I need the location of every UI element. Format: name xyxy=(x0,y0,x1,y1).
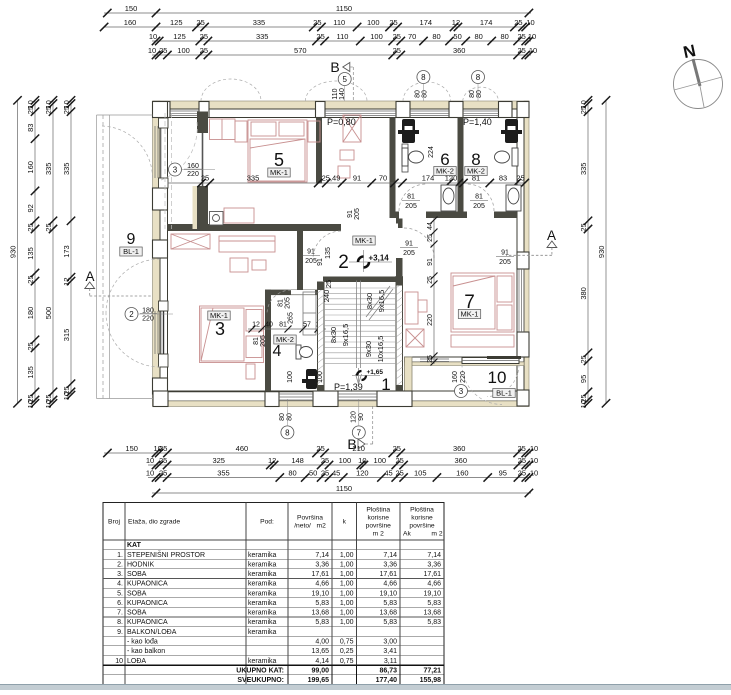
room 8 label xyxy=(465,150,487,176)
svg-text:12: 12 xyxy=(268,456,276,465)
svg-text:224: 224 xyxy=(428,146,435,158)
svg-text:91: 91 xyxy=(347,210,354,218)
room 1 label xyxy=(381,375,390,394)
door label room 7 xyxy=(400,241,418,258)
svg-text:3,00: 3,00 xyxy=(383,639,397,646)
svg-text:25: 25 xyxy=(427,355,434,363)
svg-text:17,61: 17,61 xyxy=(311,571,329,578)
window marker circle 8 bottom xyxy=(281,426,294,439)
svg-text:360: 360 xyxy=(453,46,466,55)
svg-text:KUPAONICA: KUPAONICA xyxy=(127,581,168,588)
svg-text:BALKON/LOĐA: BALKON/LOĐA xyxy=(127,629,177,636)
svg-text:10: 10 xyxy=(26,400,35,408)
dim chain left total 930 xyxy=(8,96,21,407)
svg-text:110: 110 xyxy=(332,88,339,99)
svg-text:125: 125 xyxy=(170,18,183,27)
svg-text:12: 12 xyxy=(252,322,260,329)
svg-text:10: 10 xyxy=(530,468,538,477)
dim chain left row 3 xyxy=(44,96,57,408)
svg-text:13,65: 13,65 xyxy=(311,648,329,655)
door label bath 4 xyxy=(278,297,292,309)
svg-text:1.: 1. xyxy=(117,552,123,559)
svg-text:B: B xyxy=(330,59,339,75)
pier top wall x498.5 xyxy=(499,102,513,118)
P labels xyxy=(327,117,492,392)
svg-text:+1,65: +1,65 xyxy=(367,369,384,376)
room 10 label xyxy=(488,368,516,398)
svg-text:83: 83 xyxy=(499,174,507,183)
door opening room 7 from corridor xyxy=(396,228,404,258)
svg-text:135: 135 xyxy=(325,247,332,259)
svg-text:91: 91 xyxy=(307,249,315,256)
wall room 7 west upper xyxy=(396,218,403,277)
svg-text:205: 205 xyxy=(499,259,511,266)
svg-text:9x30: 9x30 xyxy=(364,341,373,357)
svg-text:110: 110 xyxy=(333,18,345,27)
glazing lines right wall sliding door xyxy=(519,269,524,332)
svg-text:/neto/ m2: /neto/ m2 xyxy=(294,523,326,530)
pier bottom wall x265 xyxy=(265,391,279,407)
svg-text:25: 25 xyxy=(517,46,525,55)
glazing loggia divider window xyxy=(420,358,519,364)
svg-text:korisne: korisne xyxy=(367,515,389,522)
svg-text:25: 25 xyxy=(395,468,403,477)
stairs break line xyxy=(366,286,393,320)
svg-text:17,61: 17,61 xyxy=(423,571,441,578)
wall exterior right: inner band xyxy=(517,109,524,398)
dim chain top row 2 xyxy=(100,18,535,31)
dim chain right inner xyxy=(579,96,592,408)
svg-text:81: 81 xyxy=(278,299,285,307)
pier top wall x396 xyxy=(396,102,410,118)
svg-text:25: 25 xyxy=(579,355,588,363)
svg-text:3: 3 xyxy=(459,387,464,396)
wall loggia 10 west xyxy=(405,357,413,402)
room 5 kitchen counter xyxy=(224,208,254,223)
bathroom 6 toilet xyxy=(402,148,424,166)
svg-text:100: 100 xyxy=(317,371,324,383)
section marker A right xyxy=(506,228,557,255)
svg-text:174: 174 xyxy=(480,18,493,27)
window marker circle 8 top b xyxy=(472,71,485,84)
wall interior between room 3 and bathroom 4 xyxy=(265,290,271,392)
svg-text:10: 10 xyxy=(488,368,507,387)
door opening bathroom 6 xyxy=(399,211,426,219)
svg-text:10: 10 xyxy=(358,456,366,465)
svg-text:91: 91 xyxy=(501,250,509,257)
svg-text:174: 174 xyxy=(420,18,433,27)
bathroom 6 shelf xyxy=(402,144,408,172)
svg-text:Etaža, dio zgrade: Etaža, dio zgrade xyxy=(128,519,180,526)
pier bottom wall x377 xyxy=(377,391,412,407)
svg-text:1,00: 1,00 xyxy=(340,571,354,578)
svg-text:površine: površine xyxy=(409,523,435,530)
balcony 9 door swing arcs xyxy=(101,126,161,367)
room 9 label xyxy=(120,231,142,256)
svg-text:25: 25 xyxy=(517,32,525,41)
marker 7 bottom texts xyxy=(351,399,366,426)
interior dim line across plan y=183 xyxy=(168,174,530,188)
svg-text:44: 44 xyxy=(427,222,434,230)
svg-text:355: 355 xyxy=(217,468,230,477)
svg-text:SOBA: SOBA xyxy=(127,590,147,597)
wall interior south of room 5 xyxy=(168,224,342,231)
svg-text:3,36: 3,36 xyxy=(383,562,397,569)
svg-text:površine: površine xyxy=(366,523,392,530)
svg-text:P=1,40: P=1,40 xyxy=(463,117,492,127)
bottom gray strip xyxy=(0,685,731,691)
svg-text:8x30: 8x30 xyxy=(329,327,338,343)
svg-text:10: 10 xyxy=(530,444,538,453)
svg-text:9: 9 xyxy=(127,231,136,248)
svg-text:keramika: keramika xyxy=(248,629,277,636)
svg-text:keramika: keramika xyxy=(248,562,277,569)
svg-text:25: 25 xyxy=(200,32,208,41)
svg-text:SOBA: SOBA xyxy=(127,571,147,578)
svg-text:10: 10 xyxy=(146,468,154,477)
svg-text:25: 25 xyxy=(579,106,588,114)
tan edge of wall stub xyxy=(193,186,198,229)
svg-text:40: 40 xyxy=(265,322,273,329)
table totals xyxy=(236,667,441,684)
svg-text:10: 10 xyxy=(115,658,123,665)
svg-text:Ploština: Ploština xyxy=(366,507,390,514)
room 7 label xyxy=(458,292,480,319)
stairs center stringer xyxy=(356,281,362,385)
svg-text:570: 570 xyxy=(294,46,307,55)
svg-text:P=1,39: P=1,39 xyxy=(334,382,363,392)
door swing arcs interior xyxy=(267,184,494,314)
loggia divider sill dark xyxy=(487,356,521,359)
window marker circle 3 left xyxy=(169,163,182,176)
svg-text:6.: 6. xyxy=(117,600,123,607)
svg-text:10: 10 xyxy=(62,392,71,400)
svg-text:MK-2: MK-2 xyxy=(467,167,485,176)
level marker +3,14 in corridor xyxy=(349,250,392,272)
svg-text:80: 80 xyxy=(415,90,422,98)
svg-text:10: 10 xyxy=(529,46,537,55)
door label room 3 xyxy=(253,335,267,347)
svg-text:25: 25 xyxy=(159,456,167,465)
dim chain left row 2 xyxy=(26,96,39,408)
bathroom 4 dims xyxy=(248,322,326,333)
svg-text:148: 148 xyxy=(291,456,304,465)
svg-text:335: 335 xyxy=(579,163,588,176)
svg-text:12: 12 xyxy=(62,277,71,285)
svg-text:70: 70 xyxy=(408,32,416,41)
svg-text:25: 25 xyxy=(26,106,35,114)
svg-text:8x30: 8x30 xyxy=(365,293,374,309)
pier top wall x199 xyxy=(199,102,209,118)
svg-text:10: 10 xyxy=(44,400,53,408)
svg-text:155,98: 155,98 xyxy=(420,677,442,684)
wall exterior bottom: inner band xyxy=(153,391,529,401)
bottom wall inner edge emphasis xyxy=(168,391,314,393)
svg-text:KAT: KAT xyxy=(127,542,142,549)
svg-text:335: 335 xyxy=(44,163,53,176)
svg-text:0,75: 0,75 xyxy=(340,658,354,665)
svg-text:150: 150 xyxy=(125,4,138,13)
svg-text:Broj: Broj xyxy=(108,519,120,526)
glazing lines bottom wall window xyxy=(279,394,377,400)
svg-text:177,40: 177,40 xyxy=(376,677,398,684)
svg-text:A: A xyxy=(547,228,556,243)
svg-text:Površina: Površina xyxy=(297,515,323,522)
svg-text:80: 80 xyxy=(500,32,508,41)
svg-text:135: 135 xyxy=(26,247,35,260)
room 3 sofa xyxy=(219,236,275,272)
stairs labels xyxy=(322,280,386,363)
svg-text:25: 25 xyxy=(393,444,401,453)
svg-text:335: 335 xyxy=(62,163,71,176)
svg-text:80: 80 xyxy=(469,90,476,98)
svg-text:0,75: 0,75 xyxy=(340,639,354,646)
svg-text:KUPAONICA: KUPAONICA xyxy=(127,619,168,626)
svg-text:25: 25 xyxy=(200,46,208,55)
pier top wall x159 xyxy=(159,102,170,118)
svg-text:1,00: 1,00 xyxy=(340,552,354,559)
wall exterior top: inner band xyxy=(153,109,529,118)
svg-text:3,36: 3,36 xyxy=(315,562,329,569)
window marker circle 5 top xyxy=(338,73,351,86)
svg-text:1: 1 xyxy=(381,375,390,394)
svg-text:95: 95 xyxy=(499,468,507,477)
wall exterior right: tan band xyxy=(524,101,529,406)
svg-text:1,00: 1,00 xyxy=(340,600,354,607)
room 3 wardrobe with X xyxy=(171,234,210,249)
wall stub in room 5 xyxy=(197,186,208,229)
svg-text:25: 25 xyxy=(321,468,329,477)
svg-text:SVEUKUPNO:: SVEUKUPNO: xyxy=(237,677,284,684)
bathroom 4 toilet xyxy=(296,345,313,359)
svg-text:25: 25 xyxy=(393,32,401,41)
svg-text:77,21: 77,21 xyxy=(423,667,441,674)
svg-text:10: 10 xyxy=(146,456,154,465)
svg-text:5,83: 5,83 xyxy=(315,600,329,607)
svg-text:STEPENIŠNI PROSTOR: STEPENIŠNI PROSTOR xyxy=(127,550,205,559)
room 4 label xyxy=(273,335,297,360)
room 7 X-box xyxy=(406,329,424,347)
svg-text:19,10: 19,10 xyxy=(423,590,441,597)
svg-text:KUPAONICA: KUPAONICA xyxy=(127,600,168,607)
stairwell east wall (concrete, hatched) xyxy=(396,276,403,391)
svg-text:MK-1: MK-1 xyxy=(461,310,479,319)
svg-text:4,66: 4,66 xyxy=(315,581,329,588)
svg-text:205: 205 xyxy=(403,250,415,257)
svg-text:Pod:: Pod: xyxy=(260,519,274,526)
svg-text:220: 220 xyxy=(427,314,434,326)
room 5 boiler xyxy=(210,212,224,226)
svg-text:HODNIK: HODNIK xyxy=(127,562,155,569)
door label bath 8 xyxy=(470,194,488,211)
svg-text:3: 3 xyxy=(215,319,225,339)
svg-text:335: 335 xyxy=(256,32,269,41)
svg-text:8: 8 xyxy=(421,73,426,82)
svg-text:5,83: 5,83 xyxy=(427,600,441,607)
svg-text:25: 25 xyxy=(389,18,397,27)
marker 2 texts xyxy=(138,308,173,323)
table totals heavy borders xyxy=(103,665,444,684)
svg-text:91: 91 xyxy=(427,258,434,266)
svg-text:9x16,5: 9x16,5 xyxy=(341,324,350,347)
svg-text:25: 25 xyxy=(518,468,526,477)
svg-text:13,68: 13,68 xyxy=(423,610,441,617)
svg-text:8.: 8. xyxy=(117,619,123,626)
svg-text:360: 360 xyxy=(453,444,466,453)
svg-text:125: 125 xyxy=(173,32,186,41)
svg-text:335: 335 xyxy=(253,18,266,27)
svg-text:120: 120 xyxy=(356,468,369,477)
svg-text:174: 174 xyxy=(422,174,435,183)
svg-text:81: 81 xyxy=(475,194,483,201)
table body text xyxy=(115,542,441,665)
pier right wall y101.5 xyxy=(517,102,529,118)
svg-text:25: 25 xyxy=(26,275,35,283)
svg-text:5,83: 5,83 xyxy=(383,600,397,607)
pier top wall x449 xyxy=(449,102,463,118)
svg-text:325: 325 xyxy=(212,456,225,465)
dim chain bottom row 2 xyxy=(146,456,538,469)
svg-text:keramika: keramika xyxy=(248,571,277,578)
svg-text:315: 315 xyxy=(62,329,71,342)
svg-text:150: 150 xyxy=(125,444,138,453)
svg-text:- kao balkon: - kao balkon xyxy=(127,648,165,655)
dim chain top row 1 (150 / 1150) xyxy=(103,4,533,17)
svg-text:83: 83 xyxy=(26,124,35,132)
svg-text:13,68: 13,68 xyxy=(379,610,397,617)
marker 8a texts xyxy=(415,84,429,102)
svg-text:930: 930 xyxy=(8,246,17,259)
room 5 wardrobe xyxy=(210,119,236,140)
svg-text:80: 80 xyxy=(475,32,483,41)
svg-text:205: 205 xyxy=(260,335,267,347)
bathroom 8 toilet xyxy=(495,148,519,166)
svg-text:13,68: 13,68 xyxy=(311,610,329,617)
dim chain left row 4 xyxy=(62,96,75,400)
svg-text:81: 81 xyxy=(279,322,287,329)
svg-text:220: 220 xyxy=(142,316,154,323)
room 2 label xyxy=(338,236,375,273)
wall interior north of bathroom 4 xyxy=(265,290,317,296)
svg-text:5: 5 xyxy=(274,150,284,170)
svg-text:100: 100 xyxy=(339,456,352,465)
room 7 desk xyxy=(405,292,427,324)
svg-text:4: 4 xyxy=(273,343,282,360)
svg-text:91: 91 xyxy=(405,241,413,248)
svg-text:25: 25 xyxy=(26,223,35,231)
svg-text:keramika: keramika xyxy=(248,552,277,559)
room 5 label xyxy=(268,150,290,177)
svg-text:25: 25 xyxy=(196,18,204,27)
pier top wall x315.5 xyxy=(316,102,326,118)
svg-text:MK-1: MK-1 xyxy=(210,311,228,320)
wall interior west of corridor 2 xyxy=(297,231,303,290)
svg-text:930: 930 xyxy=(597,246,606,259)
svg-text:7.: 7. xyxy=(117,610,123,617)
svg-text:360: 360 xyxy=(454,456,467,465)
svg-text:205: 205 xyxy=(473,203,485,210)
svg-text:8: 8 xyxy=(285,428,290,437)
svg-text:10: 10 xyxy=(526,18,534,27)
svg-text:LOĐA: LOĐA xyxy=(127,658,146,665)
svg-text:korisne: korisne xyxy=(411,515,433,522)
svg-text:keramika: keramika xyxy=(248,619,277,626)
wall interior west of bathroom 6 xyxy=(390,118,396,219)
door label bath 6 xyxy=(402,194,420,211)
svg-text:25: 25 xyxy=(427,276,434,284)
door label room 7 east xyxy=(496,250,514,267)
svg-text:80: 80 xyxy=(476,90,483,98)
dim chain bottom row 3 xyxy=(146,468,538,481)
svg-text:180: 180 xyxy=(26,307,35,320)
svg-text:1150: 1150 xyxy=(336,4,352,13)
svg-text:70: 70 xyxy=(379,174,387,183)
svg-text:3,11: 3,11 xyxy=(384,658,397,665)
section marker A left xyxy=(85,269,153,296)
svg-text:4.: 4. xyxy=(117,581,123,588)
svg-text:100: 100 xyxy=(374,456,387,465)
svg-text:1,00: 1,00 xyxy=(340,581,354,588)
marker 3 left texts xyxy=(182,163,216,178)
door label corridor north xyxy=(347,208,361,220)
svg-text:45: 45 xyxy=(384,468,392,477)
svg-text:80: 80 xyxy=(432,32,440,41)
balcony 9 outline xyxy=(97,115,154,399)
door marker circle 2 balcony xyxy=(125,308,138,321)
svg-text:220: 220 xyxy=(460,371,467,383)
svg-text:57: 57 xyxy=(303,322,311,329)
door swing arcs above top wall xyxy=(201,79,499,101)
svg-text:3,36: 3,36 xyxy=(427,562,441,569)
section marker B top xyxy=(330,59,353,101)
svg-text:100: 100 xyxy=(370,32,383,41)
svg-text:10x16,5: 10x16,5 xyxy=(376,336,385,363)
svg-text:91: 91 xyxy=(317,258,324,266)
svg-text:10: 10 xyxy=(530,456,538,465)
svg-text:m 2: m 2 xyxy=(373,531,384,538)
pier left wall y378 xyxy=(153,378,168,394)
dim chain top row 4 xyxy=(148,46,537,59)
wall pier left of room 5 window xyxy=(197,112,208,134)
svg-text:MK-2: MK-2 xyxy=(436,167,454,176)
svg-text:25,49: 25,49 xyxy=(322,174,341,183)
svg-text:2: 2 xyxy=(129,310,134,319)
svg-text:10: 10 xyxy=(579,400,588,408)
marker 5 top texts xyxy=(332,86,346,102)
svg-text:4,00: 4,00 xyxy=(315,639,329,646)
north arrow xyxy=(674,41,723,108)
svg-text:keramika: keramika xyxy=(248,658,277,665)
svg-text:80: 80 xyxy=(422,90,429,98)
svg-text:SOBA: SOBA xyxy=(127,610,147,617)
table header text xyxy=(108,507,443,538)
door marker circle 7 bottom xyxy=(352,426,365,439)
svg-text:100: 100 xyxy=(367,18,380,27)
glazing lines left wall windows xyxy=(155,126,161,354)
window marker circle 3 loggia xyxy=(455,385,468,398)
svg-text:5.: 5. xyxy=(117,590,123,597)
svg-text:25: 25 xyxy=(518,456,526,465)
svg-text:25: 25 xyxy=(517,444,525,453)
svg-text:9x16,5: 9x16,5 xyxy=(377,290,386,313)
svg-text:25: 25 xyxy=(427,234,434,242)
room 7 bed xyxy=(451,273,514,347)
wall exterior left: inner band xyxy=(160,109,168,398)
svg-text:380: 380 xyxy=(579,287,588,300)
svg-text:10: 10 xyxy=(528,32,536,41)
svg-text:BL-1: BL-1 xyxy=(123,247,139,256)
level marker +1,65 in stairwell xyxy=(352,369,383,380)
